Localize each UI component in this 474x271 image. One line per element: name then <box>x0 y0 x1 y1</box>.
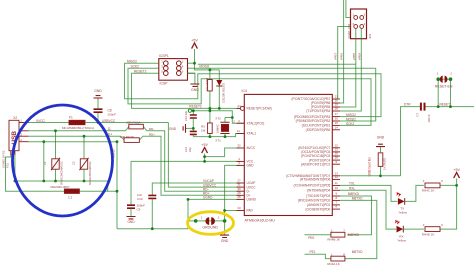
resistor RN2D 1K <box>380 147 382 153</box>
wire RN4A to PE1 flag <box>305 254 332 258</box>
svg-text:(RXD1/AIN1/INT2)PD2: (RXD1/AIN1/INT2)PD2 <box>298 199 331 203</box>
wire RD+ from RN3D to IC4 D+ pin <box>139 136 240 195</box>
svg-text:L1: L1 <box>69 196 73 200</box>
IC4 right pin (CTS/HWB/AIN6/TO/INT7)PD7 <box>332 175 340 177</box>
node XT2 net <box>188 109 191 112</box>
svg-text:JP2: JP2 <box>368 33 372 39</box>
wire RN4B to PE0 flag <box>305 234 332 236</box>
capacitor C7 plates <box>421 103 425 111</box>
wire jumper pad1 to UGND <box>188 199 196 221</box>
ground below jumper <box>224 221 226 235</box>
svg-text:M8RXD: M8RXD <box>348 233 360 237</box>
ground below C9 <box>127 217 136 219</box>
svg-text:MOSI2: MOSI2 <box>346 118 356 122</box>
X2 pin 1 VBUS stub <box>19 122 29 124</box>
wire TXL from PD5 to TX LED <box>340 185 397 201</box>
ground above C8 <box>94 96 103 98</box>
svg-text:PE0: PE0 <box>308 236 314 240</box>
wire RX LED to RN4D <box>404 228 424 230</box>
wire PAD pin to jumper branch <box>225 210 241 212</box>
wire jumper to ground bus <box>187 221 189 229</box>
svg-text:Yellow: Yellow <box>397 238 406 242</box>
IC4 left pin UGND <box>237 198 245 200</box>
svg-text:MH2029-300Y: MH2029-300Y <box>51 185 70 189</box>
wire JP2 pin3 to PB7 <box>338 27 351 100</box>
wire RN4C to +5V <box>440 184 457 186</box>
resistor RN4D 1K <box>425 227 440 232</box>
wire RESET-EN pad2 down <box>450 81 452 107</box>
svg-text:C10: C10 <box>137 197 143 201</box>
svg-text:1K RN2D: 1K RN2D <box>383 158 387 170</box>
wire ICSP GND <box>188 72 195 74</box>
wire shield down left side <box>6 155 65 191</box>
svg-text:M8TXD: M8TXD <box>352 250 364 254</box>
IC4 right pin (PCINT7/OC0A/OC1C)PB7 <box>332 98 340 100</box>
resistor RN4C 1K <box>425 183 440 188</box>
capacitor C13 <box>192 111 194 115</box>
svg-text:TXL: TXL <box>349 182 355 186</box>
wire JP2 pin2 from top edge down to PB6 <box>340 0 344 103</box>
svg-text:FS1: FS1 <box>6 163 10 168</box>
diode D3 CD1206-S01575 <box>218 70 220 80</box>
svg-text:CD1206-S01575: CD1206-S01575 <box>222 82 226 103</box>
svg-text:RESET2: RESET2 <box>189 105 202 109</box>
IC4 right pin (AIN0/INT1)PD1 <box>332 204 340 206</box>
svg-text:VUCAP: VUCAP <box>203 179 214 183</box>
wire VUCAP from C10 to IC4 UCAP pin <box>152 183 240 195</box>
resistor RN4A 1K <box>331 256 345 261</box>
svg-text:22R RN3A: 22R RN3A <box>126 120 140 124</box>
capacitor C9 plates <box>127 205 135 208</box>
svg-text:11: 11 <box>335 181 338 185</box>
svg-text:RD+: RD+ <box>149 132 155 136</box>
svg-text:(RTS/AIN5/INT6)PD6: (RTS/AIN5/INT6)PD6 <box>300 178 331 182</box>
capacitor C9 <box>130 161 132 205</box>
ICSP1 pin circles row 3 <box>164 71 169 76</box>
svg-text:Yellow: Yellow <box>398 211 407 215</box>
X2 shield pin stubs <box>11 151 15 155</box>
IC4 right pin (OC1A/PCINT8)PC6 <box>332 151 340 153</box>
svg-text:UGND: UGND <box>203 196 213 200</box>
svg-text:33: 33 <box>237 206 241 210</box>
IC4 right pin (PCINT6)PB6 <box>332 102 340 104</box>
svg-text:PAD: PAD <box>247 209 254 213</box>
svg-text:24: 24 <box>237 104 241 108</box>
LED TX yellow <box>398 198 405 205</box>
IC4 right pin (SS/PCINT0)PB0 <box>332 129 340 131</box>
svg-text:GND: GND <box>377 135 385 139</box>
svg-text:12: 12 <box>335 175 339 179</box>
wire RXL from PD4 to RX LED <box>340 190 396 229</box>
IC4 left pin D- <box>237 190 245 192</box>
IC4 right pin (INT5/AIN3)PD4 <box>332 189 340 191</box>
inductor L1 <box>64 189 79 193</box>
ICSP1 header <box>159 59 188 81</box>
IC4 left pin VCC <box>237 160 245 162</box>
svg-text:C14: C14 <box>184 147 188 152</box>
ground symbol below jumper <box>220 235 229 237</box>
wire MOSI2 from ICSP to IC4 PB2 <box>188 68 376 121</box>
IC4 left pin UCAP <box>237 182 245 184</box>
svg-text:+5V: +5V <box>453 168 460 172</box>
X2 pin 3 D+ stub <box>19 135 29 137</box>
solder jumper RESET-EN <box>436 77 440 81</box>
svg-text:GND: GND <box>221 239 229 243</box>
IC4 right pin (RTS/AIN5/INT6)PD6 <box>332 178 340 180</box>
X2 pin 4 GND stub <box>19 141 29 143</box>
resistor RN2D body <box>378 153 383 167</box>
svg-text:RN4B 1K: RN4B 1K <box>327 238 340 242</box>
svg-text:C7: C7 <box>416 112 420 116</box>
resistor RN5B body <box>208 79 213 91</box>
svg-text:+5V: +5V <box>201 143 208 147</box>
svg-text:(XCK/AIN4/PCINT12)PD5: (XCK/AIN4/PCINT12)PD5 <box>293 184 330 188</box>
svg-text:GND: GND <box>247 164 255 168</box>
svg-text:(SCLK/PCINT1)PB1: (SCLK/PCINT1)PB1 <box>302 124 331 128</box>
+5V arrow mid <box>202 148 208 154</box>
IC4 right pin (TXD1/INT3)PD3 <box>332 195 340 197</box>
wire JP2 pin4 down to PB4 <box>340 28 361 111</box>
wire Z1 Z2 bottoms row <box>14 181 108 191</box>
ICSP1 pin circles row 1 <box>164 61 169 66</box>
svg-text:RESET(PC1/DW): RESET(PC1/DW) <box>247 107 272 111</box>
svg-text:MISO2: MISO2 <box>127 59 137 63</box>
svg-text:2X2M - NM: 2X2M - NM <box>347 23 351 38</box>
ICSP1 pin circles row 2 <box>164 66 169 71</box>
jumper pad 1 <box>194 219 198 223</box>
yellow highlight ellipse around GROUND jumper <box>188 212 234 235</box>
svg-text:RN4A 1K: RN4A 1K <box>327 262 339 266</box>
IC4 right pin (PCINT5)PB5 <box>332 106 340 108</box>
solder jumper GROUND symbol <box>205 217 209 225</box>
svg-text:RN4C 1K: RN4C 1K <box>422 189 435 193</box>
IC4 left pin GND <box>237 164 245 166</box>
svg-text:100nF: 100nF <box>427 114 431 122</box>
svg-text:100nF: 100nF <box>108 113 117 117</box>
wire MISO2 from ICSP around left <box>125 63 382 116</box>
svg-text:SCK2: SCK2 <box>346 122 355 126</box>
ground left of crystal <box>186 127 194 129</box>
IC4 right pin (OC0B/INT0)PD0 <box>332 208 340 210</box>
varistor Z1 <box>52 159 59 169</box>
svg-text:10k RN5B: 10k RN5B <box>205 78 209 91</box>
svg-text:XT1: XT1 <box>215 139 221 143</box>
IC4 left pin AVCC <box>237 147 245 149</box>
svg-text:22R RN3D: 22R RN3D <box>120 135 135 139</box>
svg-text:USB boot En: USB boot En <box>367 157 371 177</box>
IC4 left pin XTAL2(PC0) <box>237 122 245 124</box>
IC4 right pin (AIN2/PCINT11)PC2 <box>332 163 340 165</box>
IC4 right pin (PDO/MISO/PCINT3)PB3 <box>332 116 340 118</box>
capacitor C14 plates <box>190 131 197 134</box>
svg-text:GND: GND <box>94 89 102 93</box>
USB connector X2 body <box>9 120 19 150</box>
svg-text:USBVCC: USBVCC <box>102 119 116 123</box>
svg-text:GND: GND <box>169 127 177 131</box>
svg-text:AVCC: AVCC <box>247 146 256 150</box>
svg-text:#PB4: #PB4 <box>357 53 361 60</box>
svg-text:32: 32 <box>237 144 241 148</box>
svg-text:XTAL1: XTAL1 <box>247 132 257 136</box>
IC4 right pin (PDI/MOSI/PCINT2)PB2 <box>332 120 340 122</box>
svg-text:(AIN2/PCINT11)PC2: (AIN2/PCINT11)PC2 <box>301 162 330 166</box>
svg-text:UGND: UGND <box>247 198 257 202</box>
IC4 right pin (XCK/AIN4/PCINT12)PD5 <box>332 184 340 186</box>
capacitor C8 <box>97 113 99 123</box>
svg-text:28: 28 <box>237 195 241 199</box>
wire DTR from PD7 row <box>340 175 401 177</box>
svg-text:(T1/PCINT4)PB4: (T1/PCINT4)PB4 <box>306 109 330 113</box>
wire SCK2 from ICSP around left <box>128 68 371 125</box>
wire UGND vertical <box>29 141 118 143</box>
+5V arrow at ICSP <box>192 43 198 49</box>
IC4 left pin PAD <box>237 210 245 212</box>
svg-text:ICSP1: ICSP1 <box>159 54 169 58</box>
svg-text:#PB5: #PB5 <box>352 53 356 60</box>
svg-text:#PB7: #PB7 <box>334 53 338 60</box>
fuse F1 <box>69 120 85 124</box>
wire corridor upper hairline <box>198 63 356 65</box>
wire Z2 to D+ line <box>83 136 85 159</box>
svg-text:IC4: IC4 <box>242 89 247 93</box>
IC4 right pin (SCLK/PCINT1)PB1 <box>332 124 340 126</box>
svg-text:(PDI/MOSI/PCINT2)PB2: (PDI/MOSI/PCINT2)PB2 <box>296 119 331 123</box>
ground above RN2D <box>376 144 385 146</box>
wire RESET-EN pad1 down <box>437 81 439 107</box>
resistor RN4B 1K <box>331 232 345 237</box>
svg-text:(SS/PCINT0)PB0: (SS/PCINT0)PB0 <box>306 128 331 132</box>
varistor Z2 <box>80 159 87 169</box>
capacitor C14 <box>192 128 194 131</box>
IC4 right pin (T1/PCINT4)PB4 <box>332 110 340 112</box>
ground below ICSP <box>188 73 195 84</box>
svg-text:M8TXD: M8TXD <box>352 197 364 201</box>
IC4 right pin (PCINT10)PC4 <box>332 159 340 161</box>
wire M8TXD from PD2 <box>340 200 377 258</box>
svg-text:USBVCC: USBVCC <box>203 183 217 187</box>
IC4 left pin UVCC <box>237 186 245 188</box>
svg-text:RESET: RESET <box>440 103 451 107</box>
IC4 ATMEGA16U2 body <box>244 94 332 215</box>
svg-text:Z2: Z2 <box>72 161 76 165</box>
resistor RN5B 10k pull-up <box>209 70 211 80</box>
node XT1 net <box>193 134 244 137</box>
wire XVCC from X2 to F1 <box>29 122 70 124</box>
svg-text:(TXD1/INT3)PD3: (TXD1/INT3)PD3 <box>306 194 330 198</box>
svg-text:XVCC: XVCC <box>36 119 46 123</box>
svg-text:XT2: XT2 <box>215 117 221 121</box>
capacitor C8 plates <box>94 109 103 112</box>
svg-text:18: 18 <box>335 107 339 111</box>
blue highlight ellipse around USB section <box>13 105 113 216</box>
svg-text:GND: GND <box>191 88 199 92</box>
IC4 left pin D+ <box>237 194 245 196</box>
svg-text:(OC0B/INT0)PD0: (OC0B/INT0)PD0 <box>306 207 331 211</box>
svg-text:PE1: PE1 <box>310 250 316 254</box>
svg-text:+5V: +5V <box>191 38 198 42</box>
svg-text:C9: C9 <box>137 207 141 211</box>
crystal XT1 16MHz <box>224 118 226 123</box>
wire TX LED to RN4C <box>405 185 424 201</box>
svg-text:22p: 22p <box>188 147 192 152</box>
svg-text:C13 22p: C13 22p <box>184 110 188 121</box>
svg-text:ICSP: ICSP <box>160 82 169 86</box>
svg-text:RD-: RD- <box>149 127 154 131</box>
svg-text:RXL: RXL <box>349 187 355 191</box>
wire USBVCC drop to IC4 UVCC pin <box>168 123 240 188</box>
svg-text:MOSI2: MOSI2 <box>199 64 209 68</box>
svg-text:MF-MSMF050-2 500mA: MF-MSMF050-2 500mA <box>62 126 94 130</box>
svg-text:MISO2: MISO2 <box>346 113 356 117</box>
wire M8RXD from PD3 <box>340 196 372 235</box>
wire D- from X2 <box>29 127 129 131</box>
wire GND pin of IC4 down to solder jumper <box>225 165 241 221</box>
svg-text:GROUND: GROUND <box>202 226 218 230</box>
wire UGND row to IC4 UGND pin <box>188 198 241 200</box>
+5V arrow right <box>454 173 460 179</box>
svg-text:GND: GND <box>127 220 135 224</box>
capacitor C13 plates <box>190 115 197 118</box>
svg-text:X2: X2 <box>13 116 17 120</box>
svg-text:14: 14 <box>335 125 339 129</box>
wire +5V to ICSP pin2 and pull-up rail <box>195 49 220 70</box>
svg-text:M8RXD: M8RXD <box>348 192 360 196</box>
resistor RN3A 22R <box>129 124 144 129</box>
wire Z1 to D- line <box>55 131 57 159</box>
svg-text:RESET2: RESET2 <box>134 69 147 73</box>
svg-text:SCK2: SCK2 <box>131 64 140 68</box>
junction C8 tap <box>97 121 100 124</box>
wire shield stub 2 down to row <box>14 155 16 181</box>
LED RX yellow <box>397 226 404 233</box>
IC4 right pin (RXD1/AIN1/INT2)PD2 <box>332 199 340 201</box>
wire USBVCC from F1 to drop <box>85 122 168 124</box>
resistor R3 1M <box>209 108 211 123</box>
svg-text:(PDO/MISO/PCINT3)PB3: (PDO/MISO/PCINT3)PB3 <box>294 115 331 119</box>
svg-text:#PB6: #PB6 <box>340 53 344 60</box>
X2 pin 2 D- stub <box>19 130 29 132</box>
wire AVCC from +5V to IC4 <box>205 148 241 157</box>
resistor R3 body <box>208 123 213 134</box>
svg-text:16: 16 <box>335 117 339 121</box>
svg-text:10: 10 <box>335 186 339 190</box>
wire JP2 pin1 from top edge <box>346 0 351 18</box>
svg-text:(INT5/AIN3)PD4: (INT5/AIN3)PD4 <box>307 189 330 193</box>
svg-text:1M: 1M <box>201 128 206 132</box>
svg-text:USHIELD FS2: USHIELD FS2 <box>1 150 5 168</box>
IC4 right pin (PCINT9/OC1B)PC5 <box>332 155 340 157</box>
IC4 left pin RESET(PC1/DW) <box>240 106 244 110</box>
svg-text:16MHZ: 16MHZ <box>215 124 219 133</box>
wire VCC rail <box>131 160 241 162</box>
IC4 right pin (INT4/ICP1/CLK0)PC7 <box>332 147 340 149</box>
IC4 left pin XTAL1 <box>237 133 245 135</box>
wire JP2 pin edge down to PB5 <box>340 28 356 107</box>
capacitor C10 plates <box>148 195 156 198</box>
wire RD- from RN3A to IC4 D- pin <box>143 127 240 192</box>
wire +5V rail down to RN4D <box>440 185 457 229</box>
resistor RN3D 22R <box>124 138 139 143</box>
wire ground bus bottom <box>117 228 188 230</box>
wire RESET2 from ICSP to IC4 RESET pin <box>132 73 241 108</box>
svg-text:15: 15 <box>335 121 339 125</box>
ground symbol below ICSP <box>190 84 199 86</box>
svg-text:17: 17 <box>335 112 339 116</box>
wire VCC from +5V rail <box>204 157 206 162</box>
wire D+ from X2 <box>29 136 125 140</box>
svg-text:RN4D 1K: RN4D 1K <box>422 232 435 236</box>
svg-text:D-: D- <box>108 127 111 131</box>
svg-text:F1: F1 <box>69 116 73 120</box>
svg-text:DTR: DTR <box>404 103 411 107</box>
wire USB GND branch down to shield row <box>43 142 45 181</box>
svg-text:XTAL2(PC0): XTAL2(PC0) <box>247 121 265 125</box>
svg-text:ATMEGA16U2-MU: ATMEGA16U2-MU <box>245 219 276 223</box>
wire from L1 to UGND vertical <box>79 190 117 192</box>
JP2 header 2x2 <box>351 9 367 39</box>
